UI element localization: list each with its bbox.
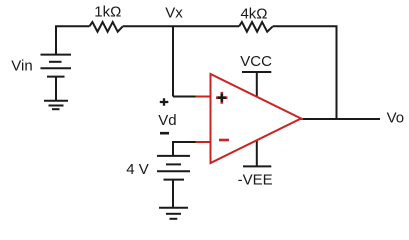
op-amp U1 noninverting input stub	[196, 96, 211, 98]
wire: V2 - terminal to ground	[172, 180, 174, 208]
ground below 4V bar 1	[159, 207, 188, 209]
VCC supply bar	[242, 71, 271, 73]
battery V1 Vin plate 4	[47, 76, 65, 78]
ground below Vin bar 1	[44, 100, 68, 102]
battery V2 4V plate 4	[164, 179, 185, 181]
VCC supply pin stem	[256, 72, 258, 97]
battery V1 Vin plate 1	[41, 54, 72, 56]
-VEE supply bar	[243, 165, 271, 167]
battery V2 4V plate 1	[157, 155, 190, 157]
wire: R1 to R2 through node Vx	[123, 25, 239, 27]
-VEE supply pin stem	[256, 140, 258, 166]
label plus sign above Vd	[160, 98, 169, 106]
svg-text:1kΩ: 1kΩ	[94, 3, 121, 20]
op-amp U1 noninverting input plus mark	[216, 92, 228, 104]
resistor R2 4kΩ	[239, 22, 273, 32]
op-amp U1 output stub	[300, 118, 303, 120]
battery V2 4V plate 2	[166, 163, 181, 165]
ground below Vin bar 3	[52, 108, 60, 110]
label minus sign below Vd	[160, 132, 169, 135]
wire: Vin + terminal up to top rail, right to R1	[56, 26, 89, 54]
ground below Vin bar 2	[49, 105, 64, 107]
wire: V1 - terminal to ground	[55, 77, 57, 101]
battery V1 Vin plate 2	[49, 61, 62, 63]
ground below 4V bar 2	[166, 213, 181, 215]
op-amp U1 inverting input stub	[196, 141, 211, 143]
svg-text:-VEE: -VEE	[238, 171, 273, 188]
svg-text:VCC: VCC	[240, 53, 272, 70]
svg-text:Vd: Vd	[158, 112, 176, 129]
battery V1 Vin plate 3	[41, 67, 72, 69]
op-amp U1 inverting input minus mark	[219, 139, 229, 142]
svg-text:4kΩ: 4kΩ	[240, 5, 267, 22]
svg-text:Vx: Vx	[165, 5, 183, 22]
wire: to op-amp - input and down to 4V source	[173, 142, 196, 156]
svg-text:Vo: Vo	[387, 110, 405, 127]
wire: node Vx down to noninverting input	[172, 26, 174, 96]
svg-text:4 V: 4 V	[126, 161, 149, 178]
battery V2 4V plate 3	[157, 170, 190, 172]
op-amp U1 triangle	[211, 74, 302, 163]
ground below 4V bar 3	[170, 218, 178, 220]
wire: op-amp output to Vo	[302, 118, 380, 120]
resistor R1 1kΩ	[89, 22, 122, 32]
svg-text:Vin: Vin	[11, 58, 32, 75]
wire: to op-amp + input	[173, 96, 196, 98]
wire: R2 right, corner down to output node	[273, 26, 337, 119]
